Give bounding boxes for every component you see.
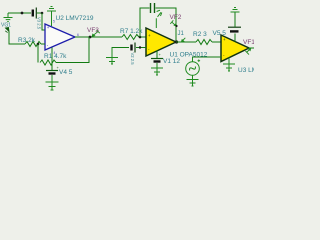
ground (below V1)	[151, 63, 163, 75]
voltage pin VF2	[170, 20, 177, 27]
wire (ground to battery V3)	[8, 12, 31, 14]
svg-text:6: 6	[77, 33, 79, 37]
power flag (flipped ground above V5)	[231, 8, 240, 13]
node (cap branch)	[139, 36, 142, 39]
wire (battery to U1 -in)	[136, 47, 146, 49]
op-amp U2 (LMV7219 comparator)	[45, 24, 75, 50]
ground (below V4)	[46, 75, 59, 90]
voltage pin VF1	[249, 47, 254, 49]
wire (R2 to U3 +in)	[212, 41, 221, 43]
svg-text:V2 2.5: V2 2.5	[130, 53, 135, 66]
svg-text:V5 5: V5 5	[213, 30, 227, 37]
battery V3 (horizontal)	[33, 8, 37, 19]
wire (R3 to - input)	[41, 43, 45, 45]
ground (below generator)	[187, 75, 199, 86]
resistor R3	[25, 42, 41, 47]
wire (R1 up to - input)	[37, 44, 39, 63]
wire (U3 V+ pin up)	[234, 34, 236, 42]
battery V4	[46, 71, 58, 74]
svg-text:U3 LMV7219: U3 LMV7219	[238, 67, 254, 74]
svg-text:V3 2.5: V3 2.5	[37, 17, 42, 30]
jumper J1	[181, 38, 186, 43]
svg-text:VG1: VG1	[1, 22, 11, 28]
svg-text:+: +	[47, 25, 50, 30]
battery V1	[151, 59, 163, 62]
wire (output)	[75, 36, 122, 38]
input pin arrow (left)	[5, 27, 9, 32]
wire (U1 out to R2)	[176, 41, 196, 43]
node (VF3 junction)	[89, 36, 92, 39]
node (junction dot on top wire)	[21, 12, 24, 15]
wire (U1 V- pin down)	[156, 51, 158, 59]
svg-text:U2 LMV7219: U2 LMV7219	[56, 15, 94, 22]
resistor R7	[122, 35, 139, 40]
resistor R2	[196, 40, 212, 45]
wire (battery to node)	[37, 12, 42, 14]
ground (left, on top wire)	[4, 13, 13, 22]
wire (R7 to U1 +in)	[139, 36, 146, 38]
node (U1 output junction)	[175, 40, 178, 43]
node (junction at cap output)	[41, 12, 44, 15]
battery V2 (horizontal)	[132, 43, 136, 53]
svg-text:J1: J1	[178, 31, 185, 37]
wire (U2 V- pin down)	[51, 48, 53, 71]
wire (generator to U3 -in)	[193, 56, 222, 58]
battery V5	[228, 27, 241, 31]
ground (U3 V- pin)	[223, 58, 235, 71]
svg-text:+: +	[223, 37, 226, 42]
voltage pin VF3	[92, 30, 100, 37]
node (feedback junction)	[37, 43, 40, 46]
wire (input to R3)	[9, 32, 25, 45]
ground (V2 reference)	[106, 47, 118, 64]
svg-text:VF2: VF2	[170, 14, 182, 21]
op-amp U1 (yellow macro)	[146, 28, 176, 56]
power flag (flipped ground above U2)	[47, 7, 56, 27]
svg-text:+: +	[148, 33, 151, 38]
capacitor C1 (feedback over U1)	[140, 8, 150, 37]
power flag (flipped ground above U1)	[156, 10, 162, 28]
feedback wire (output down)	[56, 37, 89, 63]
svg-text:V4 5: V4 5	[59, 69, 73, 76]
generator VG2	[186, 57, 200, 75]
resistor R1 (feedback)	[40, 60, 56, 65]
svg-text:R2 3: R2 3	[193, 31, 207, 38]
wire (ground to battery V2)	[112, 47, 129, 49]
svg-text:VF1: VF1	[243, 39, 254, 46]
svg-text:VF3: VF3	[87, 27, 99, 34]
wire (battery up)	[234, 12, 236, 27]
svg-text:R3 2k: R3 2k	[18, 37, 36, 44]
svg-text:V1 12: V1 12	[163, 58, 180, 65]
op-amp U3 (yellow macro)	[221, 35, 249, 62]
wire (down to + input)	[42, 13, 45, 30]
svg-text:R1 4.7k: R1 4.7k	[44, 53, 67, 60]
